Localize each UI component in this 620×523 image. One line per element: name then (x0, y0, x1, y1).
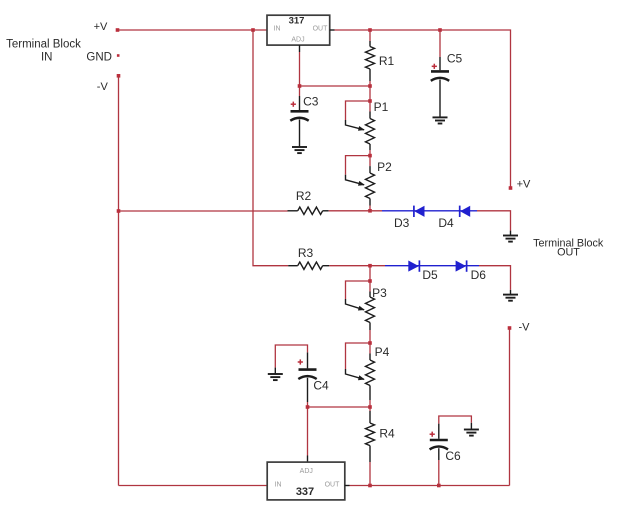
diode D4 (438, 206, 470, 231)
svg-text:R4: R4 (379, 426, 395, 440)
label -V output (519, 322, 531, 334)
label +V output (517, 178, 531, 190)
svg-text:P3: P3 (372, 286, 387, 300)
potentiometer P3 (346, 281, 388, 322)
svg-text:OUT: OUT (325, 481, 341, 488)
svg-text:C4: C4 (313, 379, 329, 393)
resistor R4 (366, 407, 395, 486)
node junction R1 top (368, 28, 372, 32)
diode D6 (456, 260, 487, 282)
node P1 tap dot (368, 99, 372, 103)
potentiometer P4 (346, 343, 390, 385)
wire P1 to P2 (369, 144, 371, 156)
svg-text:-V: -V (519, 322, 531, 334)
svg-text:P1: P1 (374, 100, 389, 114)
svg-text:P2: P2 (377, 160, 392, 174)
capacitor C5 (431, 30, 463, 117)
label +V input (94, 21, 108, 33)
svg-text:D4: D4 (438, 216, 454, 230)
wire vertical feed to R3 row (253, 30, 288, 266)
label Terminal Block OUT line1 (533, 237, 604, 249)
wire 317 OUT rail to +V corner (335, 30, 511, 188)
svg-text:ADJ: ADJ (300, 468, 313, 475)
svg-text:+V: +V (517, 178, 531, 190)
node junction C5 top (438, 28, 442, 32)
wire R2 to P2 node (329, 210, 382, 212)
resistor R1 (366, 30, 395, 86)
wire P4 bottom to R4 node (369, 386, 371, 408)
wire ADJ node to R1 bottom (300, 85, 371, 87)
node R1 bottom junction (368, 84, 372, 88)
ground at D3 D4 row (503, 236, 518, 242)
wire 317 ADJ down to node (299, 52, 301, 86)
svg-text:D5: D5 (422, 268, 438, 282)
node P3 top junction (368, 264, 372, 268)
ground below C3 (292, 147, 307, 153)
wire bottom rail right (350, 485, 510, 487)
label -V input (97, 81, 109, 93)
resistor R3 (288, 246, 329, 269)
svg-text:R3: R3 (298, 246, 314, 260)
wire R3 node to P3 tap (369, 266, 371, 281)
terminal +V output dot (509, 186, 513, 190)
node P4 tap dot (368, 341, 372, 345)
node P3 tap dot (368, 279, 372, 283)
capacitor C3 (290, 86, 318, 147)
node junction -V / R2 row (117, 209, 121, 213)
wire +V input to 317 IN (118, 29, 268, 31)
ground below C5 (433, 117, 448, 123)
svg-text:C5: C5 (447, 51, 463, 65)
node P2 bottom junction (368, 209, 372, 213)
label Terminal Block IN line1 (6, 39, 81, 51)
regulator U2 337 box (267, 462, 345, 500)
wire blue D3 D4 segment (382, 210, 477, 212)
svg-text:+V: +V (94, 21, 108, 33)
svg-text:P4: P4 (375, 345, 390, 359)
svg-text:C6: C6 (445, 449, 461, 463)
svg-text:OUT: OUT (313, 26, 329, 33)
svg-text:GND: GND (86, 51, 112, 63)
wire -V input vertical (118, 76, 120, 486)
wire 337 OUT stub (345, 485, 350, 487)
wire 317 ADJ stub (299, 45, 301, 52)
wire -V output vertical (509, 328, 511, 486)
terminal +V input dot (116, 28, 120, 32)
svg-text:337: 337 (296, 486, 314, 498)
capacitor C6 (430, 416, 472, 486)
node C4 bottom junction (306, 405, 310, 409)
ground right of C6 (464, 430, 479, 436)
wire C4 node to R4 node (308, 406, 371, 408)
wire blue D5 D6 segment (385, 265, 479, 267)
svg-text:R2: R2 (296, 189, 312, 203)
diode D3 (394, 206, 424, 231)
wire R1 node to P1 (369, 86, 371, 101)
wire ground stub D3D4 (510, 231, 512, 236)
svg-text:IN: IN (275, 481, 282, 488)
svg-text:R1: R1 (379, 54, 395, 68)
potentiometer P1 (346, 100, 389, 144)
svg-text:IN: IN (274, 26, 281, 33)
svg-text:-V: -V (97, 81, 109, 93)
resistor R2 (288, 189, 329, 215)
wire R2 row left (119, 210, 288, 212)
wire R3 to P3 node (329, 265, 385, 267)
terminal GND input dot (117, 54, 120, 57)
svg-text:OUT: OUT (557, 247, 580, 259)
svg-text:C3: C3 (303, 94, 319, 108)
potentiometer P2 (346, 156, 393, 199)
node junction +V rail / R3 feed (251, 28, 255, 32)
wire bottom rail left to 337 IN (119, 485, 268, 487)
svg-text:Terminal Block: Terminal Block (6, 39, 81, 51)
wire D4 to ground corner (477, 211, 511, 231)
wire P3 to P4 (369, 323, 371, 344)
label Terminal Block OUT line2 (557, 247, 580, 259)
label GND input (86, 51, 112, 63)
regulator U1 317 box (267, 15, 330, 45)
terminal -V output dot (508, 326, 512, 330)
wire 317 OUT stub (330, 29, 335, 31)
ground at D5 D6 row (503, 295, 518, 301)
label Terminal Block IN line2 (41, 51, 53, 63)
diode D5 (408, 260, 438, 282)
node R4 bottom junction (368, 484, 372, 488)
terminal -V input dot (117, 74, 121, 78)
svg-text:317: 317 (289, 16, 305, 27)
wire P2 bottom to rail (369, 199, 371, 211)
svg-text:ADJ: ADJ (291, 37, 304, 44)
node C6 bottom junction (437, 484, 441, 488)
svg-text:D6: D6 (471, 268, 487, 282)
node P2 tap dot (368, 154, 372, 158)
node ADJ1 junction dot (298, 84, 302, 88)
capacitor C4 (275, 345, 329, 407)
wire ADJ2 down to 337 (307, 407, 309, 462)
node R4 top junction (368, 405, 372, 409)
wire D6 to ground corner (479, 266, 511, 290)
wire ground stub D5D6 (510, 290, 512, 295)
svg-text:IN: IN (41, 51, 53, 63)
svg-text:D3: D3 (394, 216, 410, 230)
ground left of C4 (268, 374, 283, 380)
